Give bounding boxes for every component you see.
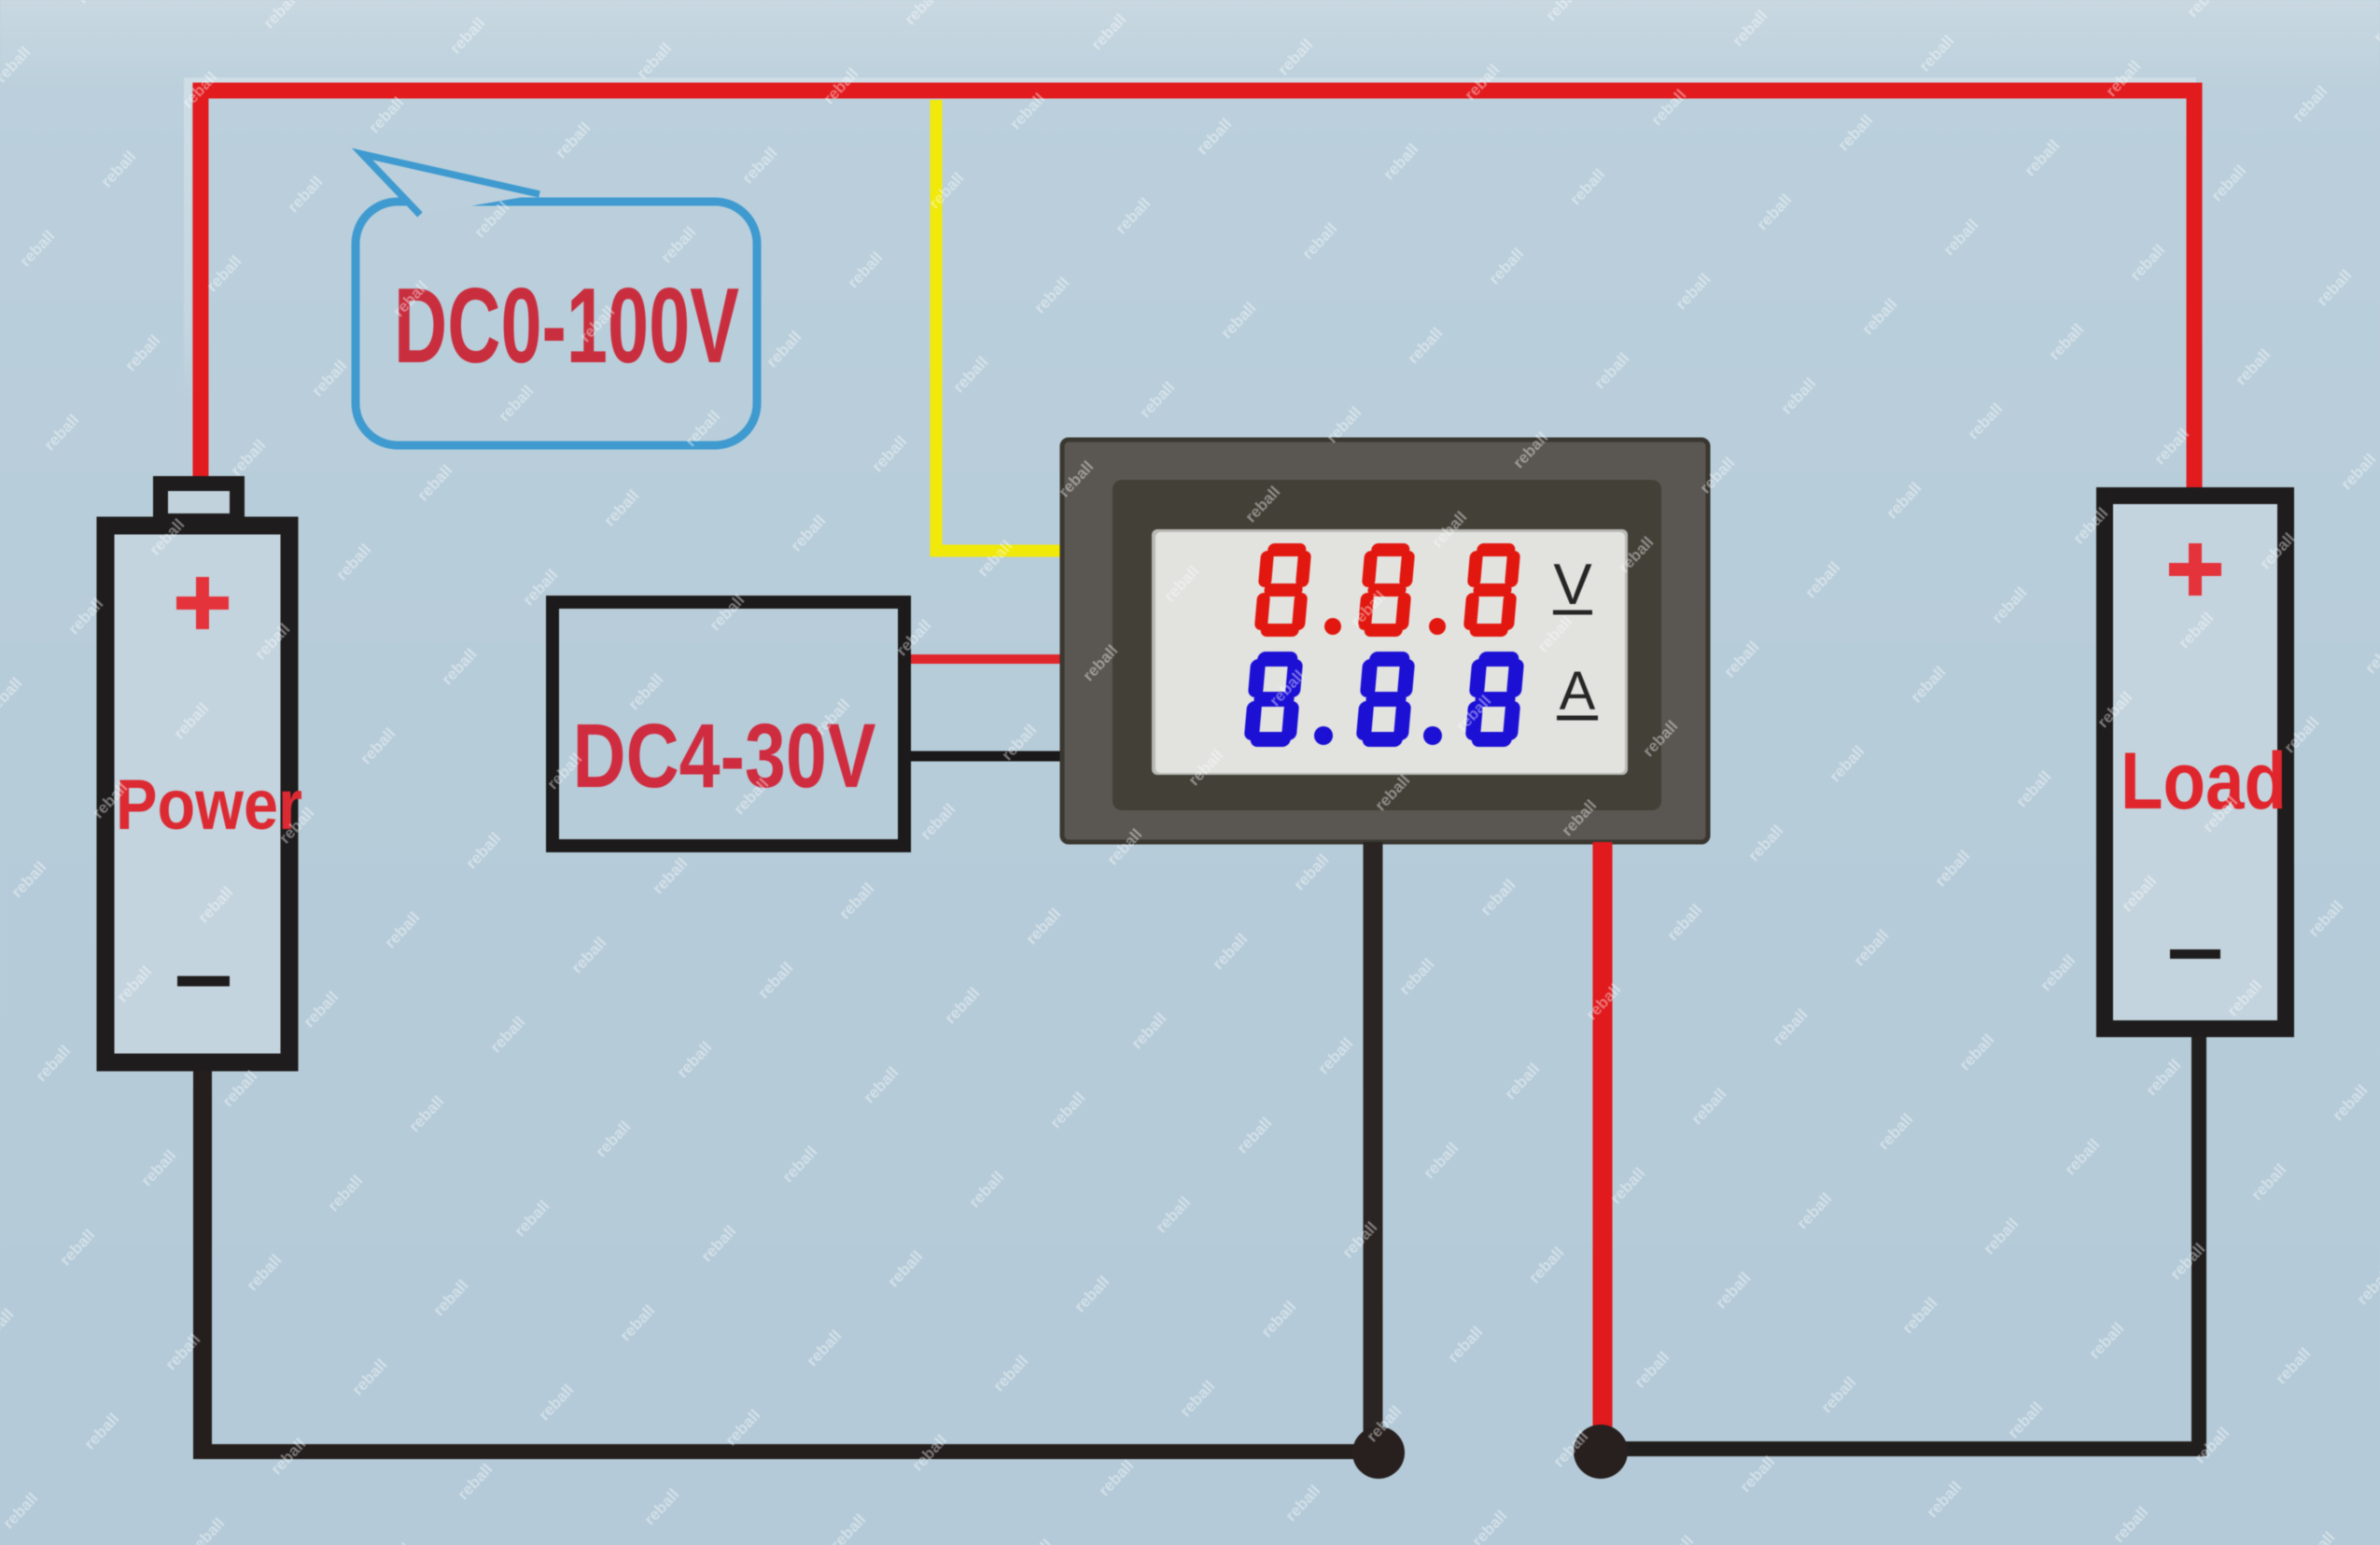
wire: top red bus highlight <box>184 77 2196 85</box>
wire: yellow sense wire from top bus down to meter <box>936 100 1067 551</box>
svg-text:DC0-100V: DC0-100V <box>394 267 739 386</box>
underline of V <box>1553 611 1592 615</box>
wire: bottom right run to Load minus <box>1601 1037 2199 1449</box>
wire: bottom ground run from Power minus <box>193 1444 1372 1459</box>
minus terminal of Load <box>2170 949 2220 959</box>
wire: red supply to meter <box>911 654 1065 664</box>
underline of A <box>1557 716 1598 721</box>
svg-text:A: A <box>1560 661 1596 722</box>
box DC4-30V supply <box>553 602 904 846</box>
svg-text:Load: Load <box>2121 737 2287 826</box>
wire: meter black lead down <box>1364 842 1383 1449</box>
svg-text:V: V <box>1553 553 1592 617</box>
decimal points A row <box>1314 726 1333 745</box>
callout bubble body <box>356 202 757 445</box>
meter module U1 outer frame <box>1062 440 1708 842</box>
wire: black supply to meter <box>911 751 1067 762</box>
callout bubble tail <box>362 154 539 215</box>
meter module U1 inner bezel <box>1113 480 1661 810</box>
wire: meter red lead down <box>1593 842 1613 1447</box>
wire: red from Power + up and across top to Load + <box>201 91 2194 495</box>
meter module U1 display window <box>1152 529 1628 775</box>
battery Power terminal cap <box>161 484 237 521</box>
battery Power body <box>105 526 289 1062</box>
minus terminal of Power <box>177 976 230 987</box>
plus terminal of Power <box>176 577 229 629</box>
svg-text:Power: Power <box>116 765 302 845</box>
plus terminal of Load <box>2169 543 2221 596</box>
node: junction red lead <box>1574 1425 1628 1479</box>
display digits V row 8.8.8 <box>1261 550 1515 630</box>
wire: Power minus lead down <box>193 1071 212 1452</box>
node: junction black lead <box>1352 1426 1405 1479</box>
decimal points V row <box>1324 618 1341 635</box>
display digits A row 8.8.8 <box>1252 659 1518 739</box>
battery Load <box>2105 496 2286 1029</box>
